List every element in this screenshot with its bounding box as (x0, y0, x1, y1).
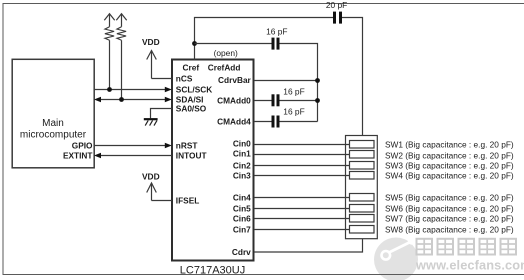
svg-text:LC717A30UJ: LC717A30UJ (180, 265, 245, 277)
svg-text:CMAdd0: CMAdd0 (217, 95, 251, 105)
IC pin label IFSEL (176, 196, 200, 206)
svg-text:SW6 (Big capacitance : e.g. 20: SW6 (Big capacitance : e.g. 20 pF) (385, 204, 514, 214)
wire CdrvBar (254, 80, 318, 82)
svg-text:Cin6: Cin6 (233, 214, 251, 224)
label SW7 (385, 214, 514, 224)
resistor R2 pull-up (116, 14, 126, 100)
(open) note on CrefAdd (214, 48, 238, 58)
svg-text:SW3 (Big capacitance : e.g. 20: SW3 (Big capacitance : e.g. 20 pF) (385, 161, 514, 171)
IC U1 LC717A30UJ box (172, 60, 254, 277)
svg-text:CdrvBar: CdrvBar (218, 75, 252, 85)
wire SCL/SCK (94, 87, 172, 92)
switch SW2 (350, 151, 375, 159)
svg-text:SW2 (Big capacitance : e.g. 20: SW2 (Big capacitance : e.g. 20 pF) (385, 150, 514, 160)
wire nCS (152, 78, 173, 80)
svg-text:www.elecfans.com: www.elecfans.com (415, 258, 524, 273)
svg-text:SW8 (Big capacitance : e.g. 20: SW8 (Big capacitance : e.g. 20 pF) (385, 225, 514, 235)
IC pin label Cin1 (233, 149, 251, 159)
wire Cin7 (254, 229, 350, 231)
svg-text:CMAdd4: CMAdd4 (217, 117, 251, 127)
IC pin label nCS (176, 73, 193, 83)
IC pin label Cin2 (233, 161, 251, 171)
svg-text:16 pF: 16 pF (283, 107, 304, 117)
IC pin label Cin3 (233, 171, 251, 181)
wire INTOUT to EXTINT (94, 153, 172, 158)
svg-text:Cin3: Cin3 (233, 171, 251, 181)
wire Cin6 (254, 218, 350, 220)
switch SW8 (350, 226, 375, 234)
wire CMAdd4 (254, 121, 318, 123)
watermark url text (415, 258, 524, 273)
svg-text:SW5 (Big capacitance : e.g. 20: SW5 (Big capacitance : e.g. 20 pF) (385, 193, 514, 203)
wire GPIO to nRST (94, 143, 172, 148)
node junction Cref/16pF (192, 41, 197, 46)
wire CMAdd0 (254, 100, 318, 102)
watermark CJK text (417, 239, 517, 255)
node junction R2/SDA (119, 97, 124, 102)
wire IFSEL (152, 200, 173, 202)
IC pin label CdrvBar (218, 75, 252, 85)
label SW5 (385, 193, 514, 203)
svg-text:IFSEL: IFSEL (176, 196, 200, 206)
IC pin label CMAdd4 (217, 117, 251, 127)
svg-text:microcomputer: microcomputer (20, 130, 87, 141)
switch SW3 (350, 162, 375, 170)
IC pin label Cdrv (232, 247, 251, 257)
wire Cin5 (254, 208, 350, 210)
svg-text:Cin0: Cin0 (233, 139, 251, 149)
IC pin label SA0/SO (176, 104, 207, 114)
svg-text:20 pF: 20 pF (326, 0, 347, 10)
wire Cin1 (254, 154, 350, 156)
svg-text:Cin5: Cin5 (233, 204, 251, 214)
label SW1 (385, 140, 514, 150)
label SW3 (385, 161, 514, 171)
svg-text:Cref: Cref (182, 63, 199, 73)
IC pin label Cin7 (233, 225, 251, 235)
watermark logo disc (374, 238, 418, 280)
svg-text:INTOUT: INTOUT (176, 151, 207, 161)
label SW6 (385, 204, 514, 214)
svg-text:Cin2: Cin2 (233, 161, 251, 171)
svg-text:16 pF: 16 pF (266, 26, 287, 36)
IC pin label INTOUT (176, 151, 207, 161)
svg-text:Cdrv: Cdrv (232, 247, 251, 257)
label SW2 (385, 150, 514, 160)
node junction R1/SCL (107, 87, 112, 92)
svg-text:SW1 (Big capacitance : e.g. 20: SW1 (Big capacitance : e.g. 20 pF) (385, 140, 514, 150)
switch SW5 (350, 194, 375, 202)
wire Cin2 (254, 165, 350, 167)
node junction CdrvBar rail (315, 78, 320, 83)
IC pin label Cin6 (233, 214, 251, 224)
svg-text:GPIO: GPIO (72, 140, 93, 150)
IC pin label CrefAdd (208, 63, 241, 73)
svg-text:VDD: VDD (142, 37, 160, 47)
svg-text:Cin4: Cin4 (233, 193, 251, 203)
label SW4 (385, 171, 514, 181)
IC pin label SDA/SI (176, 94, 204, 104)
wire Cin3 (254, 175, 350, 177)
capacitor C1 20 pF (326, 0, 347, 23)
svg-text:SCL/SCK: SCL/SCK (176, 85, 212, 95)
wire Cin4 (254, 197, 350, 199)
switch SW7 (350, 215, 375, 223)
capacitor C3 16 pF (272, 87, 305, 107)
VDD supply 1 (nCS) (142, 37, 160, 78)
capacitor C4 16 pF (272, 107, 305, 128)
wire Cin0 (254, 144, 350, 146)
wire 16pF branch to CdrvBar rail (195, 44, 318, 122)
resistor R1 pull-up (104, 14, 114, 90)
svg-text:EXTINT: EXTINT (63, 150, 93, 160)
IC pin label Cref (182, 63, 199, 73)
svg-text:SW4 (Big capacitance : e.g. 20: SW4 (Big capacitance : e.g. 20 pF) (385, 171, 514, 181)
switch SW1 (350, 141, 375, 149)
capacitor C2 16 pF (266, 26, 287, 49)
switch bank enclosure (346, 136, 378, 239)
label SW8 (385, 225, 514, 235)
svg-text:nCS: nCS (176, 73, 193, 83)
ground (144, 119, 158, 125)
svg-text:Cin7: Cin7 (233, 225, 251, 235)
wire Cref to top (195, 18, 363, 136)
svg-text:SW7 (Big capacitance : e.g. 20: SW7 (Big capacitance : e.g. 20 pF) (385, 214, 514, 224)
svg-text:Main: Main (42, 118, 64, 129)
wire SDA/SI (94, 97, 172, 102)
node junction CMAdd0 rail (315, 98, 320, 103)
wire Cdrv (254, 239, 363, 253)
svg-text:CrefAdd: CrefAdd (208, 63, 241, 73)
svg-text:SA0/SO: SA0/SO (176, 104, 207, 114)
IC pin label Cin0 (233, 139, 251, 149)
IC pin label Cin5 (233, 204, 251, 214)
svg-text:nRST: nRST (176, 141, 198, 151)
svg-text:Cin1: Cin1 (233, 149, 251, 159)
svg-text:VDD: VDD (142, 171, 160, 181)
wire SA0/SO to ground (151, 109, 173, 119)
main microcomputer box (12, 59, 94, 168)
IC pin label CMAdd0 (217, 95, 251, 105)
switch SW6 (350, 205, 375, 213)
svg-text:(open): (open) (214, 48, 238, 58)
IC pin label Cin4 (233, 193, 251, 203)
svg-text:16 pF: 16 pF (283, 87, 304, 97)
IC pin label nRST (176, 141, 198, 151)
VDD supply 2 (IFSEL) (142, 171, 160, 200)
switch SW4 (350, 172, 375, 180)
IC pin label SCL/SCK (176, 85, 212, 95)
